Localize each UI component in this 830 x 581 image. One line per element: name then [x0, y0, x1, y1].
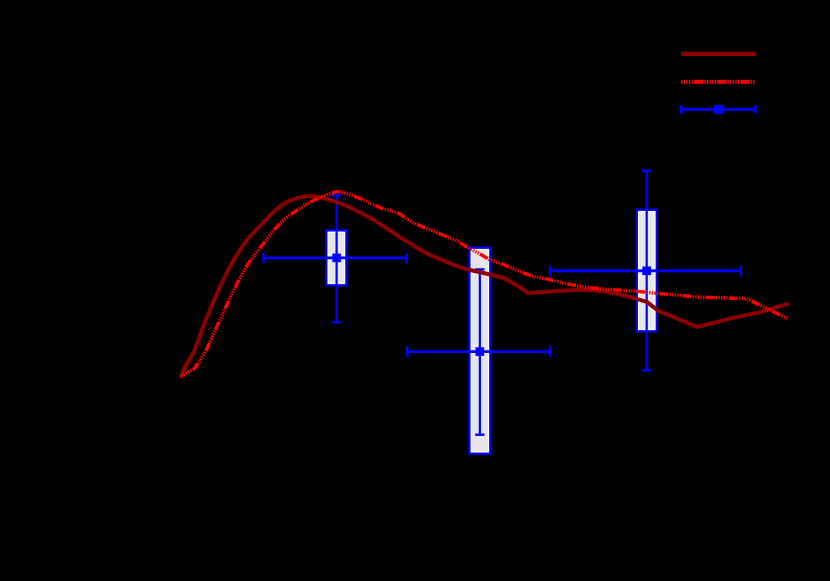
x error bar 2: [407, 347, 550, 357]
candlestick box 2: [469, 248, 490, 454]
solid dark-red curve: [181, 196, 788, 376]
candlestick box 3: [637, 171, 657, 370]
legend entry 3: error bar sample: [681, 105, 755, 114]
legend entry 2: dotted line sample: [681, 80, 756, 84]
x error bar 1: [264, 253, 407, 263]
dotted red curve: [182, 192, 788, 377]
legend entry 1: solid line sample: [681, 52, 756, 57]
x error bar 3: [550, 266, 741, 276]
candlestick box 1: [326, 195, 346, 322]
